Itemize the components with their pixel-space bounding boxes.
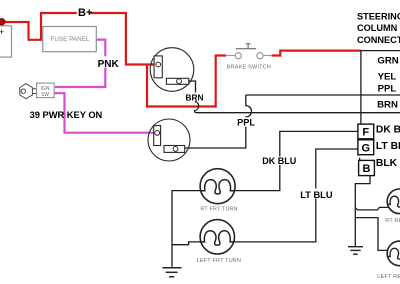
svg-text:LT BLU: LT BLU (376, 141, 400, 152)
wire RT FRT lamp to ground (172, 191, 201, 267)
label LT BLU (300, 189, 334, 199)
svg-text:LT BLU: LT BLU (300, 190, 333, 200)
svg-text:YEL: YEL (378, 72, 397, 83)
lamp RT FRT TURN (200, 169, 238, 213)
svg-text:B: B (363, 163, 371, 175)
svg-text:DK BLU: DK BLU (262, 156, 296, 166)
svg-text:PPL: PPL (237, 117, 255, 127)
ignition switch IGN SW (37, 83, 55, 98)
svg-text:CONNECTOR: CONNECTOR (357, 35, 400, 45)
svg-text:BRN: BRN (377, 99, 398, 110)
lamp LEFT FRT TURN (197, 220, 242, 265)
svg-text:PPL: PPL (378, 83, 397, 94)
svg-text:DK BLU: DK BLU (376, 124, 400, 135)
label PNK (96, 56, 118, 67)
wire DK BLU from F box to RT FRT lamp (235, 131, 358, 190)
hazard flasher U1 (150, 48, 194, 92)
wire PPL riser from flasher output with hop over BRN (185, 95, 252, 148)
label B+ (77, 7, 89, 18)
svg-text:LEFT REAR TURN: LEFT REAR TURN (377, 274, 400, 280)
ground right (348, 247, 363, 255)
ignition key symbol (20, 84, 37, 99)
svg-text:BLK: BLK (376, 158, 398, 169)
connector pin F (358, 124, 374, 139)
lamp LEFT REAR TURN (clipped at right edge) (377, 241, 400, 280)
svg-text:BRAKE SWITCH: BRAKE SWITCH (227, 64, 271, 70)
wire LT BLU from G box to LEFT FRT lamp (234, 149, 358, 242)
wire B+ feed to flasher and brake switch (red) (41, 13, 156, 65)
svg-text:RT FRT TURN: RT FRT TURN (200, 206, 237, 212)
svg-text:PNK: PNK (98, 59, 120, 70)
svg-text:FUSE PANEL: FUSE PANEL (50, 36, 90, 43)
label PPL at riser (237, 117, 256, 126)
connector pin G (358, 140, 374, 155)
wire BRN from hazard flasher with hop over red, to right edge (189, 81, 400, 113)
wire battery to fuse panel (red) (2, 22, 44, 40)
svg-text:GRN: GRN (377, 56, 398, 67)
wire red trunk down to brake switch (147, 56, 226, 107)
wire ground branch to RT REAR lamp (355, 207, 388, 210)
svg-text:F: F (362, 127, 369, 139)
label DK BLU (262, 157, 297, 166)
svg-text:BRN: BRN (186, 92, 204, 102)
wire PPL line to connector (246, 94, 400, 96)
wire PNK fuse panel to ignition switch (55, 40, 105, 87)
svg-text:STEERING: STEERING (357, 11, 400, 21)
svg-text:SW: SW (41, 92, 49, 98)
wire PNK ignition switch to turn flasher (54, 93, 156, 133)
wire brake switch to steering column connector (red) (272, 51, 361, 56)
svg-text:COLUMN: COLUMN (357, 23, 398, 33)
wire G box to B box link (359, 158, 361, 161)
wire B box to ground (355, 175, 370, 246)
turn signal flasher U2 (148, 119, 190, 161)
battery (0, 26, 12, 57)
svg-text:LEFT FRT TURN: LEFT FRT TURN (197, 258, 242, 264)
svg-text:RT REAR TURN: RT REAR TURN (385, 218, 400, 224)
connector pin B (359, 160, 375, 175)
lamp RT REAR TURN (clipped at right edge) (385, 189, 400, 224)
svg-text:39 PWR KEY ON: 39 PWR KEY ON (30, 110, 103, 120)
fuse panel (43, 27, 97, 52)
wire LEFT FRT lamp to ground (172, 242, 200, 245)
ground left (162, 268, 181, 277)
svg-text:B+: B+ (78, 7, 92, 19)
label BRN at flasher (184, 93, 206, 101)
svg-text:+: + (0, 27, 4, 37)
brake switch (226, 44, 272, 71)
wire GRN right of connector (361, 50, 400, 52)
svg-text:G: G (362, 143, 371, 155)
wire steering column connector vertical (360, 50, 362, 124)
battery positive terminal blob (0, 19, 5, 26)
wire ground branch to LEFT REAR lamp (355, 218, 387, 251)
